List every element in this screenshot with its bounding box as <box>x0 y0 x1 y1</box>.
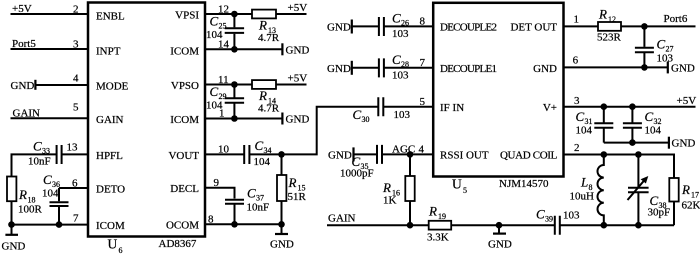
C34 ref label <box>255 138 272 155</box>
pin number 5 (U5) <box>420 96 426 108</box>
svg-text:39: 39 <box>545 215 553 224</box>
C37 value 10nF <box>247 202 270 214</box>
svg-text:4.7R: 4.7R <box>258 103 280 115</box>
svg-text:2: 2 <box>73 4 79 16</box>
ground tick C28 <box>351 61 353 75</box>
junction C27 top <box>641 23 648 30</box>
ground tick decoupling <box>668 137 670 149</box>
wire R12 to Port6 <box>621 25 696 27</box>
svg-text:104: 104 <box>645 125 662 137</box>
svg-text:GND: GND <box>327 63 351 75</box>
svg-text:4.7R: 4.7R <box>258 32 280 44</box>
op-amp U6 body <box>88 3 205 237</box>
wire R13 to +5V <box>276 13 307 15</box>
wire pin3 V+ <box>564 106 696 108</box>
wire pin3 INPT <box>11 48 89 50</box>
wire GND to C26 <box>352 25 378 27</box>
capacitor C34 <box>244 145 281 164</box>
node +5V (pin3 row) <box>677 95 697 107</box>
svg-text:103: 103 <box>392 28 409 40</box>
junction C27 bottom <box>641 64 648 71</box>
svg-text:R: R <box>258 88 267 103</box>
svg-text:17: 17 <box>691 191 699 200</box>
pin number 1 <box>219 108 225 120</box>
junction gnd node <box>496 222 503 229</box>
svg-text:103: 103 <box>394 109 411 121</box>
C25 value 104 <box>206 29 223 41</box>
svg-text:L: L <box>580 175 588 190</box>
ground tick C35 <box>352 147 354 161</box>
pin number 8 <box>208 213 214 225</box>
C37 ref label <box>247 186 264 203</box>
capacitor C27 <box>635 26 654 67</box>
svg-text:103: 103 <box>392 69 409 81</box>
svg-text:RSSI OUT: RSSI OUT <box>440 150 489 162</box>
capacitor C35 <box>377 145 433 164</box>
svg-text:3: 3 <box>574 95 580 107</box>
node GND (pin4) <box>11 80 35 92</box>
svg-text:MODE: MODE <box>96 81 129 93</box>
svg-text:U: U <box>108 237 118 252</box>
svg-text:51R: 51R <box>288 191 307 203</box>
svg-text:4: 4 <box>73 73 79 85</box>
svg-text:GND: GND <box>328 149 352 161</box>
svg-text:GND: GND <box>533 63 557 75</box>
C31 ref label <box>576 109 593 126</box>
svg-text:104: 104 <box>576 125 593 137</box>
wire R19 to C39 <box>451 224 554 226</box>
R13 value 4.7R <box>258 32 280 44</box>
ground tick pin4 <box>34 80 36 90</box>
node GAIN (pin5) <box>13 107 41 119</box>
capacitor C32 <box>623 107 642 143</box>
R16 ref label <box>382 180 400 198</box>
svg-text:103: 103 <box>563 209 580 221</box>
capacitor C26 <box>379 17 433 36</box>
svg-text:30: 30 <box>362 115 370 124</box>
R17 ref label <box>681 182 699 200</box>
R15 ref label <box>288 175 306 193</box>
svg-text:IF IN: IF IN <box>440 102 464 114</box>
pin number 6 (U5) <box>573 54 579 66</box>
svg-text:104: 104 <box>254 156 271 168</box>
ground symbol under R18 <box>2 225 26 253</box>
wire GAIN to R19 <box>327 224 429 226</box>
svg-text:10nF: 10nF <box>28 156 51 168</box>
node AGC <box>392 143 415 155</box>
R15 value 51R <box>288 191 307 203</box>
svg-text:HPFL: HPFL <box>96 150 123 162</box>
svg-text:10uH: 10uH <box>570 190 595 202</box>
wire pin11 VPSO to +5V <box>205 84 252 86</box>
svg-text:1: 1 <box>574 13 580 25</box>
wire pin2 ENBL <box>11 13 89 15</box>
svg-text:R: R <box>18 187 27 202</box>
svg-text:VPSI: VPSI <box>175 9 199 21</box>
ground tick pin1 <box>281 113 283 125</box>
node GND (pin7 row) <box>327 63 351 75</box>
junction C37 bottom <box>231 221 238 228</box>
U5 reference label <box>452 177 467 195</box>
C32 ref label <box>645 109 662 126</box>
svg-text:C: C <box>645 109 654 124</box>
C27 ref label <box>657 37 674 54</box>
capacitor C25 <box>225 14 244 49</box>
svg-text:10nF: 10nF <box>247 202 270 214</box>
C30 value 103 <box>394 109 411 121</box>
svg-text:Port6: Port6 <box>664 13 688 25</box>
svg-text:10: 10 <box>218 143 230 155</box>
resistor R17 <box>669 178 678 225</box>
resistor R14 <box>252 80 276 89</box>
R18 value 100R <box>18 204 43 216</box>
svg-text:6: 6 <box>72 178 78 190</box>
resistor R19 <box>429 221 452 230</box>
svg-text:1K: 1K <box>383 194 397 206</box>
svg-text:GND: GND <box>286 44 310 56</box>
capacitor C33 <box>57 145 88 164</box>
pin number 13 <box>67 142 79 154</box>
svg-text:5: 5 <box>463 186 467 195</box>
variable capacitor C38 <box>628 155 649 226</box>
C28 ref label <box>392 52 409 69</box>
C29 ref label <box>210 84 227 101</box>
svg-text:C: C <box>536 207 545 222</box>
svg-text:33: 33 <box>42 147 50 156</box>
junction C32 top <box>629 103 636 110</box>
R17 value 62K <box>682 200 700 212</box>
svg-text:C: C <box>392 11 401 26</box>
wire pin14 ICOM to GND <box>205 48 282 50</box>
wire pin9 DECL <box>205 188 235 199</box>
wire pin5 GAIN <box>11 117 89 119</box>
svg-text:INPT: INPT <box>96 45 121 57</box>
svg-text:12: 12 <box>608 15 616 24</box>
node +5V (pin11 row) <box>288 73 308 85</box>
svg-text:GND: GND <box>2 241 26 253</box>
node GND (pin4 row) <box>328 149 352 161</box>
C38 value 30pF <box>648 207 671 219</box>
svg-text:C: C <box>657 37 666 52</box>
svg-text:4: 4 <box>419 143 425 155</box>
svg-text:+5V: +5V <box>288 73 308 85</box>
svg-text:ENBL: ENBL <box>96 11 125 23</box>
svg-text:8: 8 <box>420 15 426 27</box>
node GND (pin6 row) <box>671 62 695 74</box>
svg-text:523R: 523R <box>597 32 622 44</box>
svg-text:12: 12 <box>218 4 229 16</box>
svg-text:9: 9 <box>214 177 220 189</box>
U6 reference label <box>108 237 123 256</box>
svg-text:R: R <box>258 18 267 33</box>
C34 value 104 <box>254 156 271 168</box>
node Port6 <box>664 13 688 25</box>
node Port5 (pin3) <box>12 38 36 50</box>
R12 ref label <box>598 7 616 25</box>
L8 ref label <box>580 175 593 193</box>
svg-text:AD8367: AD8367 <box>159 238 197 250</box>
C28 value 103 <box>392 69 409 81</box>
svg-text:C: C <box>255 138 264 153</box>
junction C25 top <box>231 11 238 18</box>
svg-text:C: C <box>210 14 219 29</box>
node GND (pin14 row) <box>286 44 310 56</box>
junction AGC node <box>407 151 414 158</box>
R16 value 1K <box>383 194 397 206</box>
node GAIN (bottom) <box>328 213 356 225</box>
C36 ref label <box>43 172 60 189</box>
svg-text:30pF: 30pF <box>648 207 671 219</box>
C29 value 104 <box>206 100 223 112</box>
C26 ref label <box>392 11 409 28</box>
svg-text:GND: GND <box>270 238 294 250</box>
pin number 11 <box>218 74 229 86</box>
capacitor C36 <box>50 188 69 225</box>
C30 ref label <box>353 107 370 124</box>
svg-text:GND: GND <box>286 114 310 126</box>
svg-text:5: 5 <box>73 102 79 114</box>
pin number 6 <box>72 178 78 190</box>
capacitor C28 <box>379 58 433 77</box>
svg-text:1000pF: 1000pF <box>340 168 374 180</box>
pin number 7 (U5) <box>420 57 426 69</box>
pin number 2 (U5) <box>574 142 580 154</box>
ground symbol mid-bottom <box>488 225 512 250</box>
svg-text:R: R <box>428 204 437 219</box>
svg-text:DET OUT: DET OUT <box>510 22 557 34</box>
junction C29 top <box>231 81 238 88</box>
svg-text:DECOUPLE1: DECOUPLE1 <box>440 63 496 75</box>
L8 value 10uH <box>570 190 595 202</box>
svg-text:C: C <box>576 109 585 124</box>
svg-text:OCOM: OCOM <box>166 220 199 232</box>
svg-text:C: C <box>43 172 52 187</box>
wire pin6 GND <box>564 66 668 68</box>
R13 ref label <box>258 18 276 36</box>
wire pin10 VOUT <box>205 153 244 155</box>
node GND (pin1 row) <box>286 114 310 126</box>
svg-text:C: C <box>247 186 256 201</box>
junction R18/gnd <box>8 221 15 228</box>
R19 ref label <box>428 204 446 222</box>
svg-text:ICOM: ICOM <box>96 220 125 232</box>
wire pin1 ICOM to GND <box>205 118 282 120</box>
resistor R16 <box>405 154 414 225</box>
svg-text:VPSO: VPSO <box>171 80 199 92</box>
capacitor C37 <box>225 200 244 225</box>
svg-text:26: 26 <box>401 19 409 28</box>
C39 value 103 <box>563 209 580 221</box>
ground tick pin14 <box>281 43 283 55</box>
svg-text:100R: 100R <box>18 204 43 216</box>
C39 ref label <box>536 207 553 224</box>
pin number 3 (U5) <box>574 95 580 107</box>
svg-text:GND: GND <box>488 239 512 251</box>
svg-text:62K: 62K <box>682 200 700 212</box>
junction C31 top <box>601 103 608 110</box>
wire GND to C35 <box>354 153 378 155</box>
svg-text:C: C <box>353 107 362 122</box>
svg-text:GND: GND <box>11 80 35 92</box>
junction R15 bottom <box>278 221 285 228</box>
pin number 10 <box>218 143 230 155</box>
resistor R13 <box>252 10 276 19</box>
wire decoupling gnd <box>604 142 669 144</box>
capacitor C29 <box>225 85 244 119</box>
resistor R12 <box>598 22 621 31</box>
svg-text:7: 7 <box>73 213 79 225</box>
junction L8 top <box>601 151 608 158</box>
U6 part number AD8367 <box>159 238 197 250</box>
svg-text:R: R <box>288 175 297 190</box>
svg-text:11: 11 <box>218 74 229 86</box>
svg-text:C: C <box>392 52 401 67</box>
svg-text:QUAD COIL: QUAD COIL <box>500 150 558 162</box>
junction R16 bottom <box>407 222 414 229</box>
C35 value 1000pF <box>340 168 374 180</box>
svg-text:14: 14 <box>218 39 230 51</box>
node GND (pin8 row) <box>327 21 351 33</box>
pin number 3 <box>73 39 79 51</box>
svg-text:R: R <box>382 180 391 195</box>
junction C25 bottom <box>231 46 238 53</box>
wire pin12 VPSI to +5V <box>205 13 252 15</box>
C25 ref label <box>210 14 227 31</box>
svg-text:19: 19 <box>438 212 446 221</box>
wire pin4 MODE <box>35 84 88 86</box>
ground tick C26 <box>351 20 353 34</box>
capacitor C30 <box>378 97 433 116</box>
U5 part number NJM14570 <box>499 178 549 190</box>
svg-text:GAIN: GAIN <box>96 114 124 126</box>
C33 value 10nF <box>28 156 51 168</box>
pin number 8 (U5) <box>420 15 426 27</box>
wire pin8 OCOM <box>205 223 282 225</box>
svg-text:5: 5 <box>420 96 426 108</box>
pin number 14 <box>218 39 230 51</box>
wire pin6 DETO <box>59 187 88 189</box>
svg-text:8: 8 <box>208 213 214 225</box>
junction C38 bottom <box>635 222 642 229</box>
svg-text:6: 6 <box>119 246 123 255</box>
junction C32 bottom <box>629 139 636 146</box>
C33 ref label <box>33 139 50 156</box>
svg-text:DETO: DETO <box>96 184 125 196</box>
C32 value 104 <box>645 125 662 137</box>
svg-text:GND: GND <box>672 138 696 150</box>
svg-text:34: 34 <box>264 146 272 155</box>
capacitor C39 <box>555 216 674 235</box>
svg-text:R: R <box>681 182 690 197</box>
C38 ref label <box>650 193 667 210</box>
pin number 4 <box>73 73 79 85</box>
svg-text:3: 3 <box>73 39 79 51</box>
svg-text:1: 1 <box>219 108 225 120</box>
pin number 4 (U5) <box>419 143 425 155</box>
svg-text:C: C <box>33 139 42 154</box>
svg-text:NJM14570: NJM14570 <box>499 178 549 190</box>
C26 value 103 <box>392 28 409 40</box>
C35 ref label <box>352 154 369 171</box>
ground tick pin6 <box>667 61 669 73</box>
R14 ref label <box>258 88 276 106</box>
pin number 1 (U5) <box>574 13 580 25</box>
C27 value 103 <box>657 53 674 65</box>
svg-text:7: 7 <box>420 57 426 69</box>
R12 value 523R <box>597 32 622 44</box>
wire VOUT node to IF IN <box>282 107 379 155</box>
svg-text:R: R <box>598 7 607 22</box>
wire pin7 ICOM <box>12 224 89 226</box>
svg-text:GND: GND <box>671 62 695 74</box>
svg-text:V+: V+ <box>543 102 557 114</box>
svg-text:VOUT: VOUT <box>168 150 199 162</box>
R19 value 3.3K <box>427 231 449 243</box>
capacitor C31 <box>594 107 613 143</box>
wire pin2 QUAD COIL <box>564 155 675 179</box>
node GND (decoupling row) <box>672 138 696 150</box>
svg-text:DECOUPLE2: DECOUPLE2 <box>440 22 496 34</box>
R14 value 4.7R <box>258 103 280 115</box>
junction C36 bottom <box>56 221 63 228</box>
junction C29 bottom <box>231 115 238 122</box>
svg-text:GND: GND <box>327 21 351 33</box>
C36 value 104 <box>42 188 59 200</box>
R18 ref label <box>18 187 36 205</box>
svg-text:DECL: DECL <box>170 183 199 195</box>
ground symbol under R15 <box>270 224 294 250</box>
svg-text:C: C <box>210 84 219 99</box>
wire GND to C28 <box>352 67 378 69</box>
C31 value 104 <box>576 125 593 137</box>
pin number 5 <box>73 102 79 114</box>
svg-text:U: U <box>452 177 462 192</box>
svg-text:3.3K: 3.3K <box>427 231 449 243</box>
svg-text:+5V: +5V <box>677 95 697 107</box>
junction C38 top <box>635 151 642 158</box>
svg-text:104: 104 <box>42 188 59 200</box>
svg-text:28: 28 <box>401 60 409 69</box>
svg-text:6: 6 <box>573 54 579 66</box>
wire R14 to +5V <box>276 84 307 86</box>
pin number 12 <box>218 4 229 16</box>
junction L8 bottom <box>601 222 608 229</box>
node +5V (pin12 row) <box>288 2 308 14</box>
pin number 9 <box>214 177 220 189</box>
svg-text:ICOM: ICOM <box>170 114 199 126</box>
resistor R15 <box>277 154 286 224</box>
svg-text:+5V: +5V <box>288 2 308 14</box>
resistor R18 <box>7 177 16 225</box>
pin number 7 <box>73 213 79 225</box>
junction VOUT node <box>278 151 285 158</box>
node +5V (pin2) <box>12 3 32 15</box>
svg-text:13: 13 <box>67 142 79 154</box>
svg-text:ICOM: ICOM <box>170 45 199 57</box>
inductor L8 <box>597 155 603 226</box>
svg-text:GAIN: GAIN <box>328 213 356 225</box>
pin number 2 <box>73 4 79 16</box>
wire pin1 DET OUT <box>564 25 599 27</box>
svg-text:2: 2 <box>574 142 580 154</box>
wire HPFL corner to C33 <box>12 154 57 176</box>
IC U5 body <box>433 3 563 177</box>
